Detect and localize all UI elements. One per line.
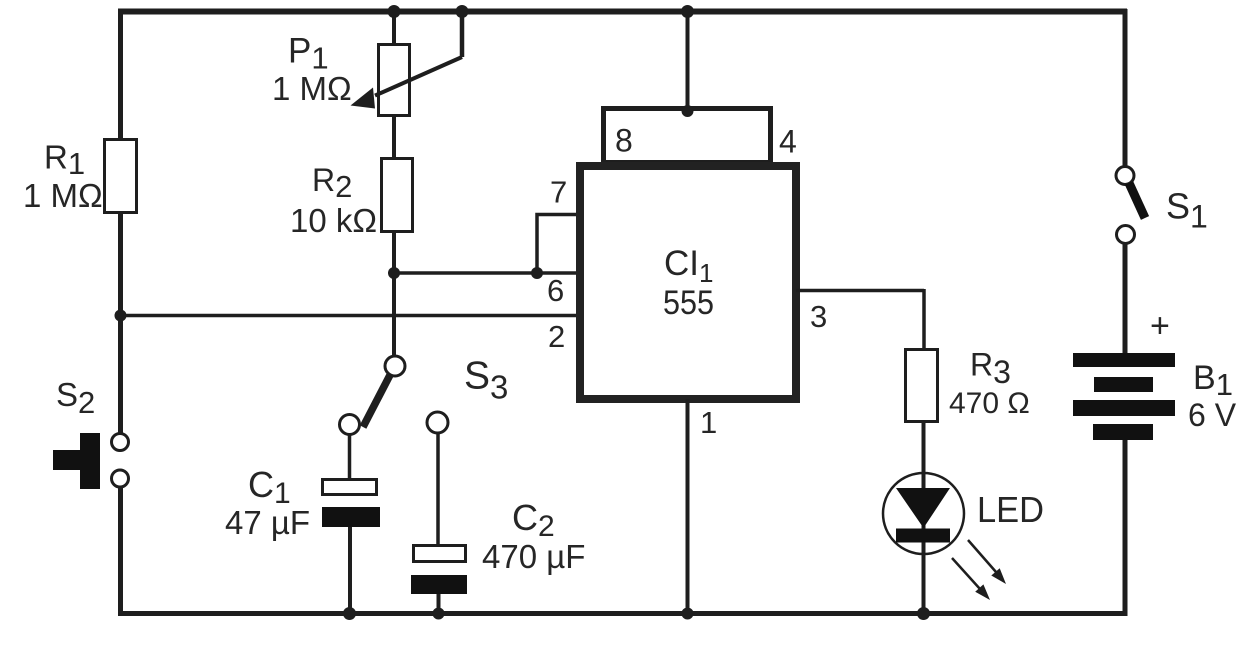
svg-text:470 µF: 470 µF: [482, 538, 585, 575]
svg-text:2: 2: [548, 319, 565, 354]
switch S2 pushbutton: [53, 376, 129, 489]
svg-text:3: 3: [810, 299, 827, 334]
wire C1 to bottom rail: [348, 527, 352, 616]
LED D1: [883, 473, 1044, 600]
node top rail P1: [388, 5, 401, 18]
node C1 bottom rail: [343, 607, 356, 620]
node C2 bottom rail: [433, 608, 445, 620]
node pin2-left junction: [115, 310, 127, 322]
node loop top junction: [682, 105, 694, 117]
potentiometer P1: [272, 32, 410, 116]
switch S3 selector: [340, 273, 509, 435]
svg-text:6 V: 6 V: [1188, 397, 1237, 433]
svg-text:R2: R2: [312, 162, 352, 204]
svg-text:7: 7: [550, 175, 567, 210]
wire pin 8 to pin 4 loop: [604, 109, 771, 163]
svg-text:4: 4: [779, 124, 797, 160]
wire left rail lower: [118, 487, 123, 616]
wire R3 to bottom rail through LED: [922, 422, 926, 616]
wire pin 7: [537, 215, 576, 274]
node LED bottom rail: [917, 607, 930, 620]
wire left rail mid: [118, 212, 123, 434]
wire top rail to 8/4 loop: [681, 5, 694, 18]
svg-text:1: 1: [700, 405, 717, 440]
wire pin 6 horizontal: [394, 271, 576, 275]
node R2 / pin6 junction: [388, 267, 400, 279]
wire top rail: [118, 9, 1127, 15]
op-amp U1 : IC CI1 555: [580, 166, 796, 399]
svg-text:10 kΩ: 10 kΩ: [290, 202, 377, 239]
svg-text:1 MΩ: 1 MΩ: [272, 70, 352, 107]
resistor R2: [290, 159, 413, 240]
node top rail P1 wiper: [456, 5, 469, 18]
wire pin 3 to R3: [796, 289, 924, 350]
svg-text:LED: LED: [977, 489, 1044, 530]
svg-text:8: 8: [615, 123, 633, 159]
wire S3 left to C1: [348, 435, 352, 479]
capacitor C1: [225, 464, 380, 541]
wire C2 to bottom rail: [437, 594, 441, 616]
svg-text:6: 6: [547, 273, 564, 308]
resistor R1: [23, 139, 137, 215]
node pin7 drop junction: [531, 267, 543, 279]
svg-text:1 MΩ: 1 MΩ: [23, 177, 103, 214]
battery B1: [1073, 307, 1237, 440]
svg-text:470 Ω: 470 Ω: [949, 387, 1030, 420]
switch S1: [1116, 167, 1208, 244]
wire right rail upper: [1123, 9, 1128, 166]
wire bottom rail: [118, 611, 1127, 616]
wire top rail to P1: [392, 11, 396, 45]
capacitor C2: [411, 497, 585, 594]
wire pin 1 down: [686, 399, 690, 616]
svg-text:555: 555: [663, 284, 714, 322]
wire R2 to S3 top: [392, 232, 396, 356]
node pin1 bottom rail: [682, 608, 694, 620]
wire right rail mid: [1123, 244, 1128, 353]
wire S3 right to C2: [436, 433, 440, 545]
svg-text:+: +: [1150, 307, 1170, 345]
wire P1 to R2: [392, 116, 396, 158]
resistor R3: [906, 347, 1030, 422]
wire P1 wiper arm: [460, 11, 465, 57]
svg-text:47 µF: 47 µF: [225, 504, 310, 541]
wire right rail lower: [1123, 440, 1128, 616]
wire pin 2 horizontal: [120, 314, 576, 318]
wire left rail upper: [118, 9, 123, 140]
